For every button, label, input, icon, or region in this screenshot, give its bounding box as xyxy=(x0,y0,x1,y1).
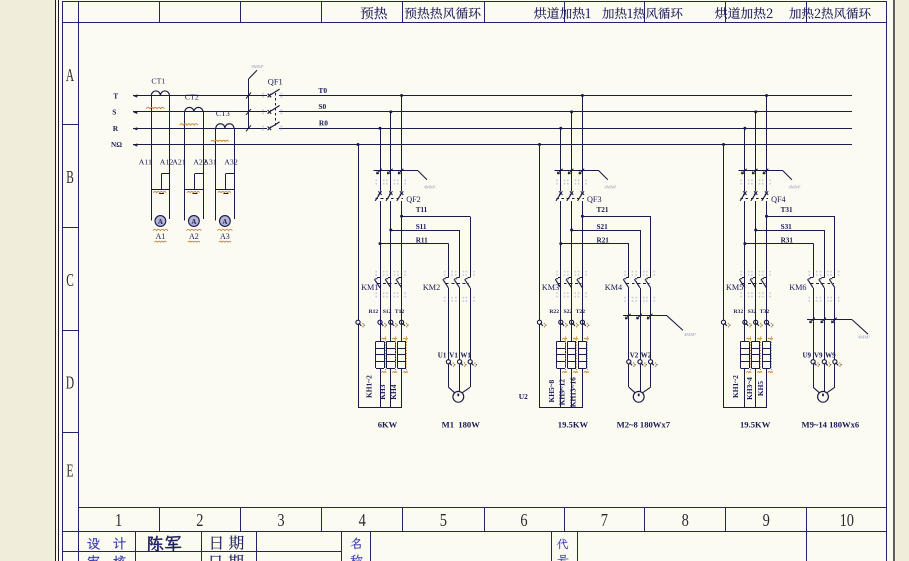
inner border left xyxy=(62,1,64,561)
breaker QF1 pole xyxy=(268,94,272,98)
wire KH1~2 to bus xyxy=(380,368,382,408)
terminal KM3 T xyxy=(580,320,584,324)
thermal relay KH1~2 element xyxy=(741,341,749,343)
svg-text:KH9~12: KH9~12 xyxy=(558,379,567,406)
supply arrows xyxy=(133,94,137,97)
wire T21 xyxy=(582,216,651,218)
motor terminal U xyxy=(811,360,815,364)
svg-text:T22: T22 xyxy=(576,309,586,315)
svg-text:A31: A31 xyxy=(203,157,217,166)
grips above QF4 xyxy=(740,180,742,182)
wire KM2 R out xyxy=(448,288,450,360)
svg-text:D: D xyxy=(66,374,74,393)
header text 加热1热风循环 xyxy=(602,8,682,20)
svg-text:6KW: 6KW xyxy=(378,420,398,430)
svg-text:A21: A21 xyxy=(172,157,186,166)
svg-text:V9: V9 xyxy=(814,351,823,359)
wire KH5~8 to bus xyxy=(560,368,562,408)
number row cell borders xyxy=(159,508,161,532)
svg-text:A: A xyxy=(191,218,196,226)
wire to motor right xyxy=(470,364,472,387)
breaker QF4 pole S xyxy=(754,191,757,195)
wire S11 xyxy=(391,230,460,232)
svg-text:V2: V2 xyxy=(630,351,639,359)
node tap QF4 S0 xyxy=(754,110,757,113)
svg-text:S: S xyxy=(112,108,116,117)
thermal relay KH5 element xyxy=(762,341,770,343)
cable leader arrows QF4 xyxy=(742,169,747,174)
svg-text:A: A xyxy=(66,67,74,86)
wire QF2 S feed xyxy=(390,112,392,191)
svg-text:8MM²: 8MM² xyxy=(252,64,264,69)
node T11 xyxy=(400,215,403,218)
hatch under label A2 xyxy=(188,241,200,242)
hatch under ammeter A2 xyxy=(186,229,201,230)
svg-text:W2: W2 xyxy=(641,351,652,359)
ground lead CT2 xyxy=(195,173,203,175)
motor terminal V xyxy=(638,360,642,364)
title text 日期 row2(clipped) xyxy=(211,555,221,561)
hatch dotted KH3 xyxy=(395,337,397,375)
title text 审核(clipped) xyxy=(88,555,100,561)
svg-text:U1: U1 xyxy=(438,351,447,359)
breaker QF2 pole T xyxy=(400,191,403,195)
ammeter A2 xyxy=(189,216,200,227)
svg-text:S32: S32 xyxy=(748,309,757,315)
thermal relay KH3 element xyxy=(387,341,395,343)
svg-text:1: 1 xyxy=(115,512,122,531)
grips KM6 xyxy=(809,271,811,273)
svg-text:KH1~2: KH1~2 xyxy=(365,375,374,398)
svg-text:KH1~2: KH1~2 xyxy=(731,375,740,398)
ammeter A3 xyxy=(220,216,231,227)
wire S21 xyxy=(572,230,641,232)
hatch under CT1 xyxy=(146,107,164,108)
svg-text:KM1: KM1 xyxy=(361,283,378,292)
svg-text:S21: S21 xyxy=(597,223,609,231)
ground symbol CT2 xyxy=(185,189,203,191)
node tap QF2 T0 xyxy=(400,94,403,97)
svg-text:T12: T12 xyxy=(395,309,405,315)
contactor KM2 pole T xyxy=(467,277,470,279)
title text 设计 xyxy=(87,538,100,550)
motor terminal W xyxy=(468,360,472,364)
wire KM2 S out xyxy=(459,288,461,360)
svg-text:A2: A2 xyxy=(189,232,199,241)
svg-text:R0: R0 xyxy=(319,119,328,128)
wire QF3 S feed xyxy=(571,112,573,191)
svg-text:A11: A11 xyxy=(139,157,152,166)
wire S31 xyxy=(756,230,825,232)
heater bottom bus 2 xyxy=(540,407,584,409)
wire phase T bus xyxy=(133,95,267,97)
motor terminal V xyxy=(822,360,826,364)
wire phase S bus xyxy=(133,111,267,113)
breaker QF2 pole S xyxy=(389,191,392,195)
node T21 xyxy=(581,215,584,218)
cable leader QF4 xyxy=(738,170,783,172)
wire to motor right xyxy=(650,364,652,387)
svg-text:8: 8 xyxy=(682,512,689,531)
wire QF4 T feed xyxy=(766,96,768,192)
KM6 linkage dashed xyxy=(811,283,834,285)
svg-text:3: 3 xyxy=(277,512,284,531)
breaker QF3 pole S xyxy=(570,191,573,195)
terminal KM5 S xyxy=(754,320,758,324)
cable leader arrows QF3 xyxy=(557,169,562,174)
wire KM2 S drop xyxy=(459,230,461,277)
motor terminal W xyxy=(649,360,653,364)
cable leader KM4 xyxy=(623,315,667,317)
wire QF2 T out xyxy=(401,201,403,342)
wire KM4 R out xyxy=(628,288,630,360)
row-label column line xyxy=(78,1,80,561)
hatch dotted KH13~16 xyxy=(587,337,589,375)
svg-text:S0: S0 xyxy=(318,102,326,111)
wire KM6 T out xyxy=(834,288,836,360)
grips KM2 xyxy=(444,271,446,273)
QF2 linkage dashed xyxy=(376,198,404,200)
svg-text:QF1: QF1 xyxy=(268,77,283,86)
wire KH3~4 to bus xyxy=(755,368,757,408)
cable leader QF2 xyxy=(374,170,419,172)
grips KM3 xyxy=(556,271,558,273)
sheet left outer edge lines xyxy=(55,0,57,561)
thermal relay KH13~16 element xyxy=(578,341,586,343)
cable leader KM6 xyxy=(807,319,852,321)
svg-text:QF2: QF2 xyxy=(406,195,421,204)
thermal relay KH3~4 element xyxy=(752,341,760,343)
svg-text:4MM²: 4MM² xyxy=(789,185,801,190)
hatch dotted KH9~12 xyxy=(576,337,578,375)
hatch under ammeter A3 xyxy=(217,229,232,230)
breaker QF2 pole R xyxy=(378,191,381,195)
wire R21 xyxy=(561,243,629,245)
wire QF4 T out xyxy=(766,201,768,342)
hatch under CT3 xyxy=(211,140,229,141)
KM1 linkage dashed xyxy=(378,283,401,285)
svg-text:M9~14 180Wx6: M9~14 180Wx6 xyxy=(802,420,860,430)
wire QF4 R out xyxy=(744,201,746,342)
header cell borders xyxy=(159,1,161,22)
current transformer CT1 xyxy=(151,91,169,96)
node tap QF3 T0 xyxy=(581,94,584,97)
svg-text:R22: R22 xyxy=(549,309,559,315)
wire to motor right xyxy=(834,364,836,387)
node tap QF3 R0 xyxy=(559,127,562,130)
contactor KM4 pole T xyxy=(648,277,651,279)
contactor KM6 pole R xyxy=(810,277,813,279)
wire QF3 T feed xyxy=(582,96,584,192)
svg-text:M1 180W: M1 180W xyxy=(442,420,481,430)
grips above QF3 xyxy=(556,180,558,182)
wire to motor mid xyxy=(459,364,461,392)
ground lead CT3 xyxy=(226,173,234,175)
node tap N drop 1 xyxy=(357,143,360,146)
grips KM1 xyxy=(375,271,377,273)
node tap QF3 S0 xyxy=(570,110,573,113)
wire KH3 to bus xyxy=(390,368,392,408)
KM3 linkage dashed xyxy=(558,283,581,285)
svg-text:T32: T32 xyxy=(760,309,770,315)
wire R31 xyxy=(745,243,813,245)
svg-text:QF3: QF3 xyxy=(587,195,602,204)
svg-text:6: 6 xyxy=(520,512,527,531)
svg-text:R11: R11 xyxy=(416,236,428,244)
KM5 linkage dashed xyxy=(742,283,765,285)
svg-text:R21: R21 xyxy=(597,236,610,244)
cable leader arrows KM6 xyxy=(810,318,815,323)
hatch dotted KH5~8 xyxy=(565,337,567,375)
hatch dotted KH4 xyxy=(406,337,408,375)
contactor KM3 pole R xyxy=(558,277,561,279)
title text 号(clipped) xyxy=(558,555,569,561)
wire KM4 T out xyxy=(650,288,652,360)
svg-text:19.5KW: 19.5KW xyxy=(740,420,771,430)
wire N drop 3 xyxy=(723,145,725,321)
wire KM6 T drop xyxy=(834,216,836,277)
node S11 xyxy=(389,229,392,232)
wire phase R bus xyxy=(133,128,267,130)
hatch under CT2 xyxy=(180,124,198,125)
svg-text:U9: U9 xyxy=(803,351,812,359)
wire to motor mid xyxy=(824,364,826,392)
svg-text:S31: S31 xyxy=(781,223,793,231)
heater bottom bus 3 xyxy=(724,407,768,409)
wire QF2 T feed xyxy=(401,96,403,192)
svg-text:A12: A12 xyxy=(160,157,174,166)
wire KM6 S out xyxy=(824,288,826,360)
svg-text:R12: R12 xyxy=(369,309,379,315)
contactor KM1 pole T xyxy=(399,277,402,279)
thermal relay KH4 element xyxy=(397,341,405,343)
hatch under label A3 xyxy=(219,241,231,242)
ammeter A1 xyxy=(155,216,166,227)
title text 陈军 signature xyxy=(148,536,181,552)
thermal relay KH1~2 element xyxy=(376,341,384,343)
header text 预热热风循环 xyxy=(405,7,481,19)
node tap QF2 S0 xyxy=(389,110,392,113)
wire KM6 R out xyxy=(813,288,815,360)
title block row divider xyxy=(62,551,342,553)
svg-text:4: 4 xyxy=(359,512,366,531)
row strip dividers xyxy=(62,124,78,126)
node T31 xyxy=(765,215,768,218)
header text 预热 xyxy=(361,7,387,20)
svg-text:KH5: KH5 xyxy=(756,381,765,396)
current transformer CT3 xyxy=(216,124,234,129)
node R21 xyxy=(559,242,562,245)
svg-text:4MM²: 4MM² xyxy=(424,185,436,190)
wire KM2 T drop xyxy=(470,216,472,277)
svg-text:9: 9 xyxy=(763,512,770,531)
contactor KM6 pole S xyxy=(821,277,824,279)
title text 称(clipped) xyxy=(350,554,362,561)
svg-text:CT1: CT1 xyxy=(151,76,165,85)
svg-text:KM2: KM2 xyxy=(423,283,440,292)
motor terminal V xyxy=(458,360,462,364)
cable leader QF3 xyxy=(554,170,599,172)
terminal on N drop 2 xyxy=(537,320,541,324)
title text 日期 xyxy=(212,536,222,549)
hatch dotted KH3~4 xyxy=(760,337,762,375)
contactor KM1 pole S xyxy=(388,277,391,279)
wire QF4 S feed xyxy=(755,112,757,191)
current transformer CT2 xyxy=(185,107,203,112)
svg-text:KM6: KM6 xyxy=(789,283,806,292)
wire KM4 S drop xyxy=(640,230,642,277)
svg-text:7: 7 xyxy=(601,512,608,531)
svg-text:KH4: KH4 xyxy=(389,384,398,399)
svg-text:S22: S22 xyxy=(564,309,573,315)
node tap QF2 R0 xyxy=(379,127,382,130)
wire neutral N bus xyxy=(133,144,852,146)
wire KH1~2 to bus xyxy=(744,368,746,408)
KM4 linkage dashed xyxy=(626,283,649,285)
svg-text:T: T xyxy=(113,91,118,100)
wire QF2 S out xyxy=(390,201,392,342)
wire T11 xyxy=(402,216,471,218)
breaker QF4 pole T xyxy=(765,191,768,195)
inner border right xyxy=(886,1,888,561)
svg-text:2: 2 xyxy=(196,512,203,531)
svg-text:4MM²: 4MM² xyxy=(858,335,870,340)
svg-text:V1: V1 xyxy=(449,351,458,359)
svg-text:U2: U2 xyxy=(519,392,528,401)
grips KM4 xyxy=(624,271,626,273)
wire CT1 secondary legs xyxy=(151,96,153,221)
wire to motor mid xyxy=(640,364,642,392)
wire KM2 R drop xyxy=(448,244,450,278)
breaker QF3 pole R xyxy=(559,191,562,195)
QF1 linkage dashed xyxy=(275,93,277,126)
wire QF4 S out xyxy=(755,201,757,342)
node tap QF4 T0 xyxy=(765,94,768,97)
contactor KM5 pole S xyxy=(753,277,756,279)
thermal relay KH9~12 element xyxy=(567,341,575,343)
svg-text:CT3: CT3 xyxy=(216,109,230,118)
hatch under ground CT3 xyxy=(218,192,231,193)
cable leader arrows KM4 xyxy=(625,314,630,319)
svg-text:R32: R32 xyxy=(734,309,744,315)
svg-text:W1: W1 xyxy=(460,351,471,359)
wire to motor left xyxy=(628,364,630,387)
QF1 leader line xyxy=(248,79,250,128)
contactor KM2 pole R xyxy=(446,277,449,279)
svg-text:T0: T0 xyxy=(318,86,327,95)
wire CT2 secondary legs xyxy=(184,112,186,221)
wire KM4 T drop xyxy=(650,216,652,277)
wire KH13~16 to bus xyxy=(582,368,584,408)
svg-text:KH13~16: KH13~16 xyxy=(569,377,578,407)
terminal KM1 R xyxy=(378,320,382,324)
svg-text:R31: R31 xyxy=(781,236,794,244)
wire KM4 S out xyxy=(640,288,642,360)
wire N drop 2 xyxy=(539,145,541,321)
svg-text:KM3: KM3 xyxy=(542,283,559,292)
hatch under ground CT2 xyxy=(187,192,200,193)
title text 名 xyxy=(350,537,361,549)
svg-text:19.5KW: 19.5KW xyxy=(558,420,589,430)
motor terminal U xyxy=(446,360,450,364)
node tap N drop 2 xyxy=(538,143,541,146)
motor terminal W xyxy=(833,360,837,364)
node S21 xyxy=(570,229,573,232)
cable leader arrows QF2 xyxy=(377,169,382,174)
svg-text:KH5~8: KH5~8 xyxy=(547,380,556,403)
wire KM2 T out xyxy=(470,288,472,360)
breaker QF1 pole xyxy=(268,127,272,131)
svg-text:S11: S11 xyxy=(416,223,427,231)
svg-text:T11: T11 xyxy=(416,206,428,214)
heater bottom bus 1 xyxy=(358,407,402,409)
wire N drop 1 xyxy=(358,145,360,321)
terminal on N drop 1 xyxy=(356,320,360,324)
svg-text:T21: T21 xyxy=(597,206,609,214)
wire CT3 secondary legs xyxy=(215,128,217,220)
sheet right outer edge line xyxy=(893,0,895,561)
svg-text:4MM²: 4MM² xyxy=(604,185,616,190)
svg-text:KM5: KM5 xyxy=(726,283,743,292)
wire KM6 R drop xyxy=(813,244,815,278)
header text 加热2热风循环 xyxy=(789,8,870,20)
title block verticals xyxy=(135,532,137,561)
motor M1&#160;&#160;180W xyxy=(453,391,464,402)
wire QF2 R feed xyxy=(380,128,382,191)
thermal relay KH5~8 element xyxy=(557,341,565,343)
breaker QF1 pole xyxy=(268,110,272,114)
grips above QF2 xyxy=(375,180,377,182)
svg-text:W9: W9 xyxy=(825,351,836,359)
wire KH9~12 to bus xyxy=(571,368,573,408)
terminal KM3 R xyxy=(559,320,563,324)
motor M2~8&#160;180Wx7 xyxy=(633,391,644,402)
contactor KM5 pole R xyxy=(742,277,745,279)
svg-text:4MM²: 4MM² xyxy=(684,332,696,337)
KM2 linkage dashed xyxy=(446,283,469,285)
svg-text:S12: S12 xyxy=(383,309,392,315)
svg-text:KM4: KM4 xyxy=(605,283,622,292)
svg-text:B: B xyxy=(66,169,74,188)
header bottom line xyxy=(62,22,887,24)
terminal KM1 S xyxy=(389,320,393,324)
breaker QF4 pole R xyxy=(743,191,746,195)
svg-text:KH3: KH3 xyxy=(378,384,387,399)
hatch under ammeter A1 xyxy=(153,229,168,230)
contactor KM5 pole T xyxy=(764,277,767,279)
terminal KM1 T xyxy=(400,320,404,324)
terminal KM5 R xyxy=(743,320,747,324)
hatch dotted KH1~2 xyxy=(385,337,387,375)
header text 烘道加热1 xyxy=(534,7,590,19)
svg-text:A3: A3 xyxy=(220,232,230,241)
terminal KM3 S xyxy=(570,320,574,324)
wire KH4 to bus xyxy=(401,368,403,408)
QF1 leader arrows xyxy=(246,93,251,99)
contactor KM3 pole S xyxy=(569,277,572,279)
node R31 xyxy=(743,242,746,245)
node R11 xyxy=(379,242,382,245)
contactor KM4 pole S xyxy=(637,277,640,279)
svg-text:10: 10 xyxy=(840,512,854,531)
inner border top xyxy=(62,1,887,3)
svg-text:5: 5 xyxy=(440,512,447,531)
hatch dotted KH5 xyxy=(771,337,773,375)
svg-text:C: C xyxy=(66,271,74,290)
ground symbol CT3 xyxy=(216,189,234,191)
svg-text:NΩ: NΩ xyxy=(111,141,122,149)
wire QF3 S out xyxy=(571,201,573,342)
